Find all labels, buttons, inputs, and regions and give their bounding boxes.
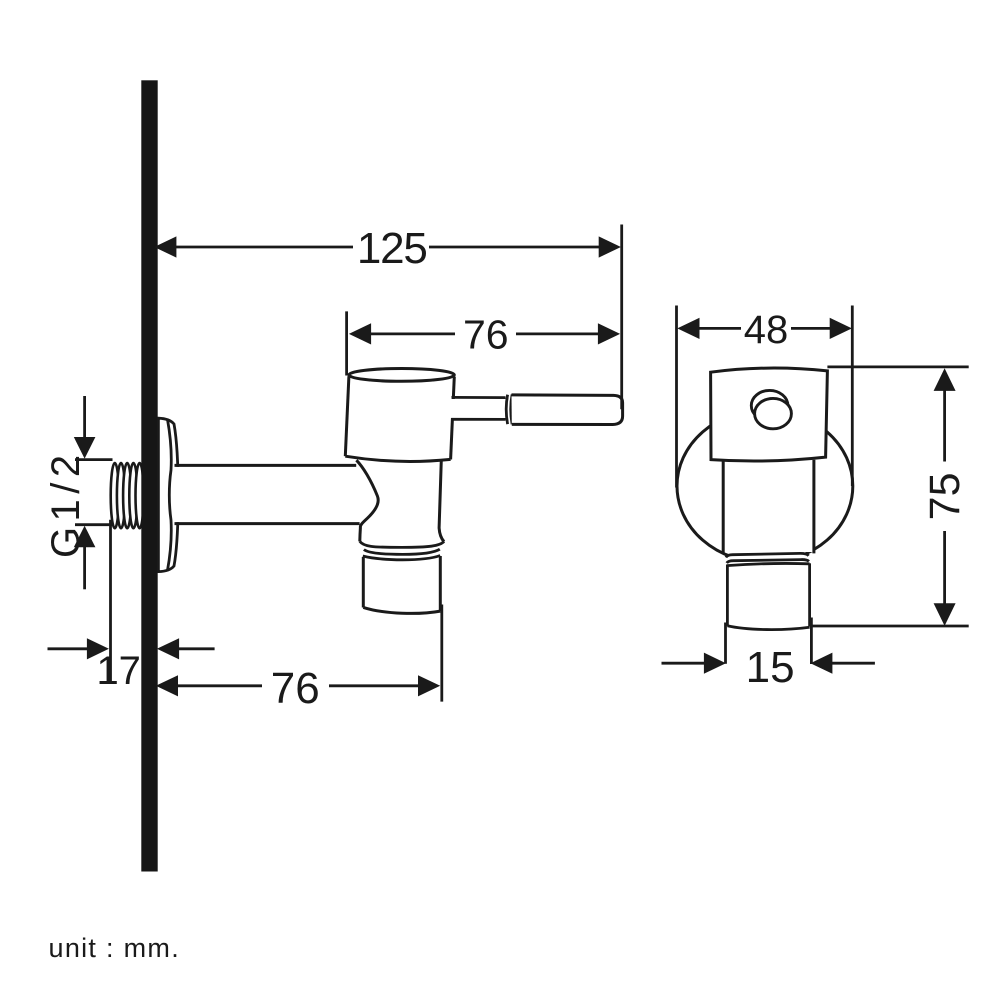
extension line 15 right [810, 618, 813, 665]
svg-text:unit : mm.: unit : mm. [49, 933, 181, 963]
dim 76 bottom line left [174, 684, 262, 687]
dim 15 stem left [662, 662, 706, 665]
handle stem fill [449, 399, 508, 418]
front seam arc A [726, 553, 809, 557]
G1/2 tick top [75, 458, 113, 461]
coupling arc 1 [506, 395, 507, 424]
dim 15 arrow left [704, 653, 726, 674]
dim 76 top line left [366, 332, 455, 335]
dim 125 line right [429, 246, 602, 249]
svg-text:48: 48 [744, 308, 789, 352]
front column fill [722, 456, 813, 552]
svg-text:125: 125 [357, 224, 427, 273]
front spout right edge [808, 563, 811, 626]
dim 75 arrow bottom [934, 603, 956, 626]
valve body top ellipse [349, 369, 454, 382]
front spout bottom edge [727, 626, 809, 630]
G1/2 arrow bottom stem [83, 547, 86, 589]
nozzle right edge [439, 556, 442, 611]
svg-text:76: 76 [271, 664, 320, 713]
extension line 75 bottom [812, 625, 969, 628]
extension line 48 left [675, 306, 678, 488]
dim 76 top arrow left [349, 323, 371, 344]
pipe fill [173, 467, 353, 522]
wall [141, 80, 157, 871]
G1/2 arrow bottom head [74, 526, 96, 548]
handle stem bottom line [451, 418, 507, 421]
dim 125 arrow left [154, 236, 176, 257]
dim 76 top line right [516, 332, 601, 335]
valve body fill [345, 375, 454, 461]
seam line lower [364, 549, 440, 554]
nozzle fill [363, 556, 441, 613]
svg-text:76: 76 [463, 312, 509, 358]
dim 76 top arrow right [598, 323, 620, 344]
mid body right contour [439, 460, 444, 542]
handle bar outline [512, 395, 623, 425]
dim 76 bottom arrow left [156, 675, 178, 696]
valve body left edge [345, 376, 349, 456]
front spout top edge [727, 563, 810, 565]
dim 15 stem right [831, 662, 875, 665]
dim 48 line left [695, 327, 741, 330]
svg-text:17: 17 [96, 649, 141, 693]
G1/2 arrow top head [74, 437, 96, 459]
handle bar fill [512, 395, 623, 425]
dim 15 arrow right [810, 653, 832, 674]
nozzle bottom edge [363, 607, 440, 613]
mid body left contour [356, 460, 378, 541]
extension line 15 left [724, 623, 727, 664]
faucet mid body fill [356, 460, 444, 542]
sphere (front view ball) [677, 409, 853, 562]
svg-text:G1/2: G1/2 [44, 449, 88, 558]
coupling fill [506, 396, 514, 423]
svg-text:75: 75 [921, 472, 969, 520]
front column right line [812, 460, 815, 554]
extension line 125/76 right [620, 225, 623, 410]
dim 76 bottom line right [329, 684, 420, 687]
dim 48 arrow left [677, 318, 699, 339]
threads G1/2 pipe [111, 463, 144, 528]
G1/2 tick bottom [75, 523, 113, 526]
dim 76 bottom arrow right [418, 675, 440, 696]
seam line upper [360, 541, 444, 547]
handle stem top line [452, 396, 508, 399]
svg-text:15: 15 [746, 643, 795, 692]
front column left line [722, 460, 725, 552]
dim 125 line left [172, 246, 353, 249]
coupling arc 2 [511, 395, 512, 425]
dim 48 arrow right [830, 318, 852, 339]
extension line 75 top [827, 365, 968, 368]
screw front ellipse [755, 398, 792, 428]
dim 17 arrow right [157, 638, 179, 659]
front head rect [711, 368, 828, 461]
dim 17 stem left [48, 647, 90, 650]
flange inner arc [168, 420, 172, 571]
extension line 76 bottom right [440, 605, 443, 702]
pipe top line [175, 464, 357, 467]
dim 75 line bottom [943, 531, 946, 607]
G1/2 arrow top stem [83, 396, 86, 439]
dim 48 line right [791, 327, 836, 330]
screw back ellipse [751, 390, 788, 420]
extension line 17 [109, 520, 112, 683]
front seam arc B [727, 560, 809, 563]
dim 75 arrow top [934, 368, 956, 391]
extension line 48 right [851, 306, 854, 487]
valve body bottom arc [345, 456, 450, 461]
extension line 76 top left [345, 311, 348, 375]
front spout fill [727, 553, 809, 630]
dim 17 stem right [177, 647, 215, 650]
dim 75 line top [943, 386, 946, 462]
valve body right edge [451, 377, 455, 460]
flange escutcheon [158, 418, 178, 571]
nozzle left edge [362, 557, 365, 608]
dim 125 arrow right [599, 236, 621, 257]
dim 17 arrow left [87, 638, 109, 659]
front spout left edge [726, 565, 729, 626]
nozzle top edge [363, 556, 440, 560]
pipe bottom line [175, 522, 360, 525]
